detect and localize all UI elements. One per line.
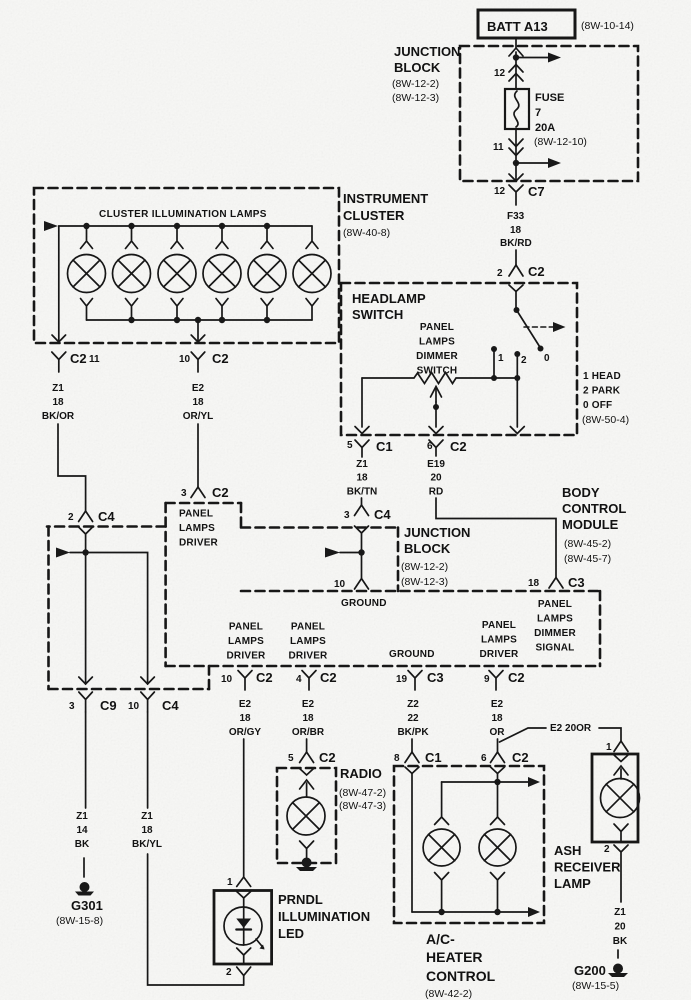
svg-text:ILLUMINATION: ILLUMINATION: [278, 909, 370, 924]
svg-text:E2: E2: [192, 383, 205, 394]
wire RD run to BCM: [436, 498, 556, 577]
svg-text:3: 3: [69, 701, 75, 712]
svg-text:3: 3: [344, 510, 350, 521]
svg-text:2: 2: [604, 844, 610, 855]
entry chevron into PRNDL: [237, 892, 251, 899]
svg-text:CONTROL: CONTROL: [426, 968, 496, 984]
svg-text:18: 18: [302, 713, 314, 724]
svg-text:BK/RD: BK/RD: [500, 238, 532, 249]
svg-text:JUNCTION: JUNCTION: [404, 525, 470, 540]
svg-text:11: 11: [493, 142, 504, 153]
svg-text:18: 18: [239, 713, 251, 724]
svg-text:CLUSTER ILLUMINATION LAMPS: CLUSTER ILLUMINATION LAMPS: [99, 209, 267, 220]
svg-text:LAMPS: LAMPS: [228, 636, 264, 647]
node dots on top bus: [83, 223, 270, 229]
svg-text:BK/YL: BK/YL: [132, 839, 162, 850]
svg-text:JUNCTION: JUNCTION: [394, 44, 460, 59]
wire left drop through lower box: [85, 534, 87, 684]
svg-text:PANEL: PANEL: [538, 599, 572, 610]
label PANEL LAMPS DRIVER (row 1): [227, 622, 267, 662]
label PANEL LAMPS DRIVER (row 3): [480, 620, 520, 660]
wire E2 18 OR/YL: [183, 383, 214, 422]
svg-text:RECEIVER: RECEIVER: [554, 860, 621, 875]
wire E2 20OR branch feed: [500, 723, 622, 742]
svg-text:22: 22: [407, 713, 419, 724]
svg-text:SWITCH: SWITCH: [352, 307, 403, 322]
connector chevron into junction block: [509, 48, 523, 56]
exit chevron right drop: [141, 677, 155, 684]
svg-text:SWITCH: SWITCH: [417, 366, 458, 377]
lamp 1 terminals and bulb: [68, 226, 106, 320]
svg-text:A/C-: A/C-: [426, 931, 455, 947]
exit chevron PRNDL pin 2: [237, 948, 251, 955]
svg-text:1 HEAD: 1 HEAD: [583, 371, 621, 382]
svg-text:12: 12: [494, 68, 506, 79]
svg-text:(8W-42-2): (8W-42-2): [425, 988, 472, 1000]
label RADIO (8W-47-2)(8W-47-3): [339, 766, 386, 812]
svg-text:OR/GY: OR/GY: [229, 727, 262, 738]
svg-text:2: 2: [521, 355, 527, 366]
rheostat wiper arrow: [431, 387, 442, 428]
svg-text:PANEL: PANEL: [420, 322, 454, 333]
svg-text:C3: C3: [568, 575, 585, 590]
svg-text:14: 14: [76, 825, 88, 836]
svg-text:FUSE: FUSE: [535, 92, 564, 104]
wire branch to second drop: [86, 553, 148, 685]
svg-text:PANEL: PANEL: [291, 622, 325, 633]
label PANEL LAMPS DRIVER (row 2): [289, 622, 329, 662]
connector C2 pin 11 fork: [52, 351, 100, 372]
svg-text:2: 2: [68, 512, 74, 523]
svg-text:LAMP: LAMP: [554, 876, 591, 891]
wire E2 OR stub to A/C heater: [497, 739, 499, 752]
label 1 HEAD 2 PARK 0 OFF (8W-50-4): [582, 371, 629, 426]
connector C3 pin 18 fork (BCM panel lamps dimmer signal): [528, 575, 585, 590]
wire A/C right drop to splice: [497, 774, 499, 783]
svg-text:10: 10: [334, 579, 346, 590]
svg-text:MODULE: MODULE: [562, 517, 619, 532]
svg-text:(8W-50-4): (8W-50-4): [582, 414, 629, 426]
wire left feed drop: [58, 226, 60, 342]
entry chevron A/C right: [491, 767, 505, 774]
svg-text:BATT A13: BATT A13: [487, 19, 548, 34]
A/C heater control dashed outline: [394, 766, 544, 923]
svg-text:11: 11: [89, 354, 100, 365]
svg-text:C7: C7: [528, 184, 545, 199]
switch arm pivot and blade: [514, 307, 551, 364]
svg-text:LAMPS: LAMPS: [419, 337, 455, 348]
ground G301 symbol: [75, 882, 94, 896]
pin 12 (fuse input) double chevron: [494, 58, 523, 90]
wire E2 18 OR/BR: [292, 699, 325, 738]
svg-text:19: 19: [396, 674, 408, 685]
ash lamp bulb: [601, 779, 640, 818]
svg-text:C2: C2: [450, 439, 467, 454]
label BODY CONTROL MODULE (8W-45-2)(8W-45-7): [562, 485, 626, 565]
radio lamp terminal fork: [300, 780, 314, 797]
label ASH RECEIVER LAMP: [554, 843, 621, 891]
svg-text:E19: E19: [427, 459, 445, 470]
wire BK/YL to PRNDL pin 2: [148, 854, 244, 985]
svg-text:20A: 20A: [535, 122, 555, 134]
connector C2 pin 10 fork (row): [221, 670, 273, 690]
svg-text:HEADLAMP: HEADLAMP: [352, 291, 426, 306]
connector C2 pin 6 fork (A/C heater): [481, 750, 529, 765]
svg-text:Z1: Z1: [614, 907, 626, 918]
svg-text:BK/TN: BK/TN: [347, 487, 378, 498]
radio dashed outline: [277, 768, 336, 863]
connector C4 pin 2 fork (left drop): [68, 509, 115, 524]
svg-text:(8W-15-8): (8W-15-8): [56, 915, 103, 927]
svg-text:(8W-45-2): (8W-45-2): [564, 538, 611, 550]
svg-text:(8W-15-5): (8W-15-5): [572, 980, 619, 992]
wire E2 18 OR: [490, 699, 506, 738]
svg-text:10: 10: [128, 701, 140, 712]
svg-text:DIMMER: DIMMER: [534, 628, 576, 639]
svg-text:HEATER: HEATER: [426, 949, 483, 965]
label A/C- HEATER CONTROL (8W-42-2): [425, 931, 496, 1000]
entry chevron A/C left: [405, 767, 419, 774]
connector C2 pin 5 fork (radio): [288, 750, 336, 765]
A/C bottom bus with arrow: [412, 907, 540, 917]
instrument cluster dashed outline: [34, 188, 339, 343]
svg-text:(8W-40-8): (8W-40-8): [343, 227, 390, 239]
label INSTRUMENT CLUSTER (8W-40-8): [343, 191, 428, 239]
ground G200 symbol: [608, 964, 628, 978]
svg-text:INSTRUMENT: INSTRUMENT: [343, 191, 428, 206]
svg-text:C1: C1: [425, 750, 442, 765]
cluster module main dashed boundary: [166, 503, 600, 666]
connector C4 pin 10 fork: [128, 692, 179, 713]
svg-text:(8W-47-2): (8W-47-2): [339, 787, 386, 799]
entry chevron into headlamp switch: [509, 285, 523, 292]
label JUNCTION BLOCK (8W-12-2)(8W-12-3) middle: [401, 525, 470, 588]
connector C4 pin 3 fork (junction block): [344, 505, 391, 522]
svg-text:BK/PK: BK/PK: [397, 727, 429, 738]
svg-text:18: 18: [356, 473, 368, 484]
entry chevron into junction block row: [355, 526, 369, 533]
A/C lamp 2 riser and bulb: [479, 782, 516, 912]
switch contact 2: [514, 351, 527, 378]
svg-text:Z1: Z1: [76, 811, 88, 822]
connector C2 pin 9 fork (row): [484, 670, 525, 690]
svg-text:C2: C2: [70, 351, 87, 366]
svg-text:C2: C2: [528, 264, 545, 279]
wire bottom bus exit drop: [197, 320, 199, 342]
svg-text:18: 18: [528, 578, 540, 589]
node splice with feed arrow right: [513, 158, 561, 180]
label JUNCTION BLOCK (8W-12-2)(8W-12-3): [392, 44, 460, 104]
svg-text:E2 20OR: E2 20OR: [550, 723, 592, 734]
connector C2 pin 3 fork (panel lamps driver): [181, 485, 229, 500]
switch travel dashed arrow: [524, 322, 566, 332]
lamp 3 terminals and bulb: [158, 226, 196, 320]
resistor (dimmer rheostat): [362, 373, 517, 384]
svg-text:DRIVER: DRIVER: [480, 649, 520, 660]
svg-text:C2: C2: [212, 485, 229, 500]
svg-text:0 OFF: 0 OFF: [583, 400, 612, 411]
instrument cluster lower-left dashed outline: [47, 527, 209, 690]
svg-text:4: 4: [296, 674, 302, 685]
node splice with feed arrow right: [513, 53, 561, 63]
wire Z1 14 BK run to G301: [85, 712, 87, 808]
svg-text:C2: C2: [319, 750, 336, 765]
wire Z2 22 BK/PK: [397, 699, 429, 738]
wire OR/BR stub to radio: [306, 739, 308, 752]
svg-text:1: 1: [498, 353, 504, 364]
lamp 4 terminals and bulb: [203, 226, 241, 320]
svg-text:(8W-12-2): (8W-12-2): [392, 78, 439, 90]
svg-text:(8W-10-14): (8W-10-14): [581, 20, 634, 32]
entry chevron into radio: [300, 769, 314, 776]
ground symbol inside radio: [296, 858, 317, 872]
radio illumination lamp: [287, 797, 325, 835]
wire Z1 20 BK: [613, 907, 628, 947]
svg-text:C2: C2: [320, 670, 337, 685]
label PANEL LAMPS DIMMER SWITCH: [416, 322, 458, 377]
svg-text:C4: C4: [98, 509, 115, 524]
svg-text:C1: C1: [376, 439, 393, 454]
exit chevron left drop: [79, 677, 93, 684]
wire Z2 BK/PK stub to A/C heater: [411, 739, 413, 752]
svg-text:SIGNAL: SIGNAL: [536, 643, 575, 654]
wire F33 18 BK/RD: [500, 211, 532, 265]
svg-text:E2: E2: [239, 699, 252, 710]
svg-text:F33: F33: [507, 211, 525, 222]
svg-text:DRIVER: DRIVER: [227, 651, 267, 662]
wire to switch pivot: [515, 292, 517, 311]
connector C7 pin 12 exit chevron: [509, 174, 523, 181]
svg-text:BK: BK: [75, 839, 90, 850]
lamp 2 terminals and bulb: [113, 226, 151, 320]
svg-text:(8W-12-3): (8W-12-3): [392, 92, 439, 104]
svg-text:BK: BK: [613, 936, 628, 947]
connector pin 1 fork (ash lamp): [606, 741, 628, 753]
connector C2 pin 2 fork (headlamp switch): [497, 264, 545, 279]
svg-text:DRIVER: DRIVER: [179, 538, 219, 549]
svg-text:LED: LED: [278, 926, 304, 941]
ground pin 10 fork (junction block): [334, 579, 369, 591]
svg-text:18: 18: [52, 397, 64, 408]
wire batt to junction block: [515, 38, 517, 48]
svg-text:3: 3: [181, 488, 187, 499]
connector C1 pin 5 fork: [347, 439, 393, 457]
svg-text:(8W-12-10): (8W-12-10): [534, 136, 587, 148]
svg-text:OR/YL: OR/YL: [183, 411, 214, 422]
svg-text:E2: E2: [302, 699, 315, 710]
node splice with feed arrow (junction block): [325, 548, 365, 558]
svg-text:LAMPS: LAMPS: [537, 614, 573, 625]
wire Z1 18 BK/OR: [42, 383, 75, 422]
wire E19 20 RD: [427, 459, 445, 498]
connector C3 pin 19 fork (row): [396, 670, 444, 690]
wire A/C left drop: [411, 774, 413, 913]
svg-text:LAMPS: LAMPS: [481, 635, 517, 646]
svg-text:8: 8: [394, 753, 400, 764]
node splice with feed arrow (left box): [56, 548, 89, 558]
svg-text:PANEL: PANEL: [229, 622, 263, 633]
svg-text:RADIO: RADIO: [340, 766, 382, 781]
connector C2 pin 10 fork: [179, 351, 229, 372]
wire inside junction block: [361, 533, 363, 578]
svg-text:20: 20: [614, 922, 626, 933]
node junction dots on resistor bus: [491, 375, 497, 381]
svg-text:0: 0: [544, 353, 550, 364]
pin 11 (fuse output) double chevron: [493, 129, 523, 163]
label FUSE 7 20A (8W-12-10): [534, 92, 587, 148]
entry chevron left drop: [79, 527, 93, 534]
lamp 5 terminals and bulb: [248, 226, 286, 320]
svg-text:G200: G200: [574, 963, 606, 978]
svg-text:CLUSTER: CLUSTER: [343, 208, 405, 223]
wire Z1 18 BK/YL run: [147, 712, 149, 808]
top bus feed arrow: [44, 221, 58, 231]
svg-text:BLOCK: BLOCK: [404, 541, 451, 556]
label HEADLAMP SWITCH: [352, 291, 426, 322]
svg-text:7: 7: [535, 107, 541, 119]
svg-text:(8W-47-3): (8W-47-3): [339, 800, 386, 812]
fuse F7 20A: [505, 89, 529, 129]
svg-text:1: 1: [227, 877, 233, 888]
ash lamp lower fork: [614, 824, 628, 841]
svg-text:BODY: BODY: [562, 485, 600, 500]
svg-text:9: 9: [484, 674, 490, 685]
svg-text:5: 5: [347, 440, 353, 451]
svg-text:OR: OR: [490, 727, 506, 738]
svg-text:G301: G301: [71, 898, 103, 913]
svg-text:20: 20: [430, 473, 442, 484]
svg-text:E2: E2: [491, 699, 504, 710]
junction block (top) dashed outline: [460, 46, 638, 181]
svg-text:2 PARK: 2 PARK: [583, 386, 621, 397]
svg-text:(8W-45-7): (8W-45-7): [564, 553, 611, 565]
svg-text:5: 5: [288, 753, 294, 764]
svg-text:C2: C2: [508, 670, 525, 685]
lamp 6 terminals and bulb: [293, 226, 331, 320]
svg-text:C9: C9: [100, 698, 117, 713]
connector C2 pin 6 fork: [427, 439, 467, 456]
svg-text:C3: C3: [427, 670, 444, 685]
svg-text:Z1: Z1: [356, 459, 368, 470]
wire left leg to C1: [361, 378, 363, 427]
svg-text:(8W-12-3): (8W-12-3): [401, 576, 448, 588]
label G301 (8W-15-8): [56, 898, 103, 927]
svg-text:LAMPS: LAMPS: [179, 523, 215, 534]
svg-text:12: 12: [494, 186, 506, 197]
connector C9 pin 3 fork: [69, 692, 117, 713]
PRNDL illumination LED outline box: [214, 891, 272, 965]
svg-text:BK/OR: BK/OR: [42, 411, 75, 422]
svg-text:CONTROL: CONTROL: [562, 501, 626, 516]
svg-text:Z1: Z1: [52, 383, 64, 394]
connector pin 2 fork (ash lamp): [604, 844, 628, 902]
svg-text:18: 18: [141, 825, 153, 836]
svg-text:6: 6: [481, 753, 487, 764]
svg-text:GROUND: GROUND: [389, 649, 435, 660]
svg-text:ASH: ASH: [554, 843, 581, 858]
svg-text:(8W-12-2): (8W-12-2): [401, 561, 448, 573]
wire contact2 to park exit: [516, 378, 518, 427]
wire Z1 18 BK/TN: [347, 459, 378, 498]
connector pin 2 fork (PRNDL): [226, 967, 251, 985]
ash lamp terminal fork: [614, 766, 628, 779]
connector C2 pin 4 fork (row): [296, 670, 337, 690]
connector pin 1 fork (PRNDL): [227, 877, 251, 888]
svg-text:DRIVER: DRIVER: [289, 651, 329, 662]
svg-text:C2: C2: [212, 351, 229, 366]
svg-text:C4: C4: [162, 698, 179, 713]
radio lamp lower fork: [300, 841, 314, 858]
svg-text:Z2: Z2: [407, 699, 419, 710]
connector C1 pin 8 fork (A/C heater): [394, 750, 442, 765]
node splice with feed arrow (A/C top): [442, 777, 540, 787]
svg-text:PANEL: PANEL: [482, 620, 516, 631]
svg-text:RD: RD: [429, 487, 443, 498]
svg-text:18: 18: [192, 397, 204, 408]
svg-text:PANEL: PANEL: [179, 509, 213, 520]
exit chevron bus drop: [191, 335, 205, 342]
svg-text:Z1: Z1: [141, 811, 153, 822]
svg-text:GROUND: GROUND: [341, 598, 387, 609]
svg-text:2: 2: [497, 268, 503, 279]
exit chevron C1 leg: [355, 427, 369, 434]
exit chevron wiper leg: [429, 427, 443, 434]
wire bottom bus: [87, 319, 313, 321]
svg-text:LAMPS: LAMPS: [290, 636, 326, 647]
connector C7 fork: [494, 184, 545, 205]
label PANEL LAMPS DIMMER SIGNAL: [534, 599, 576, 654]
svg-text:18: 18: [491, 713, 503, 724]
ash receiver lamp outline box: [592, 754, 638, 842]
svg-text:C2: C2: [512, 750, 529, 765]
entry chevron into ash lamp: [614, 755, 628, 762]
label G200 (8W-15-5): [572, 963, 619, 992]
svg-text:C4: C4: [374, 507, 391, 522]
svg-text:10: 10: [221, 674, 233, 685]
exit chevron left feed: [52, 335, 66, 342]
exit chevron park feed: [510, 427, 524, 434]
svg-text:2: 2: [226, 967, 232, 978]
svg-text:DIMMER: DIMMER: [416, 351, 458, 362]
svg-text:1: 1: [606, 742, 612, 753]
label PRNDL ILLUMINATION LED: [278, 892, 370, 941]
A/C lamp 1 riser and bulb: [423, 782, 460, 912]
wire E2 18 OR/GY: [229, 699, 262, 738]
svg-text:BLOCK: BLOCK: [394, 60, 441, 75]
wire: [515, 52, 517, 57]
wire OR/GY down to PRNDL pin 1: [243, 739, 245, 877]
svg-text:PRNDL: PRNDL: [278, 892, 323, 907]
svg-text:18: 18: [510, 225, 522, 236]
battery feed BATT A13: [478, 10, 575, 38]
switch contact 1: [491, 346, 504, 378]
LED lamp symbol: [224, 898, 265, 950]
svg-text:OR/BR: OR/BR: [292, 727, 325, 738]
label PANEL LAMPS DRIVER (upper): [179, 509, 219, 549]
node dots on bottom bus: [128, 317, 270, 323]
headlamp switch dashed outline: [341, 283, 577, 435]
svg-text:10: 10: [179, 354, 191, 365]
wire top bus: [59, 225, 312, 227]
svg-text:C2: C2: [256, 670, 273, 685]
